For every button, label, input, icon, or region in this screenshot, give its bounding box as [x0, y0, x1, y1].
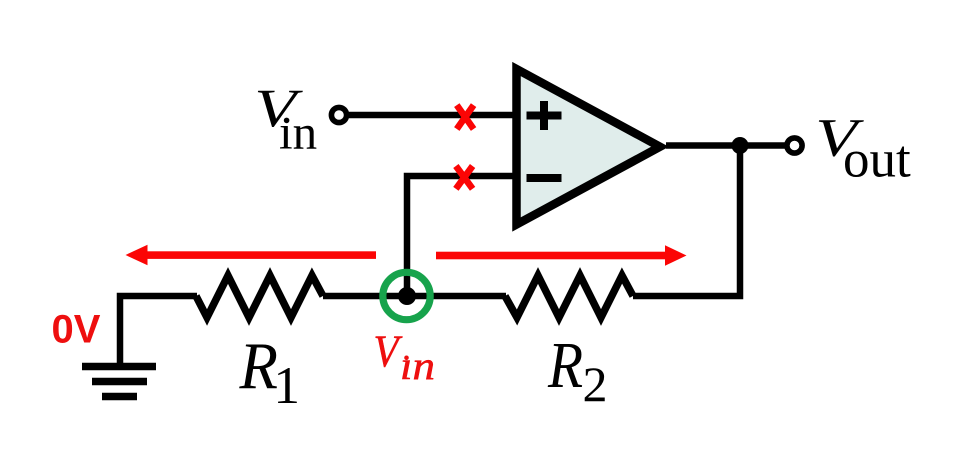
- red current arrow pointing left over R1: [126, 245, 377, 266]
- junction dot at output node: [732, 137, 749, 154]
- green circle highlighting node Vin: [383, 272, 430, 319]
- svg-text:2: 2: [583, 356, 608, 412]
- label Vin at node (red): [374, 327, 436, 389]
- wire: Vin terminal to + input: [349, 112, 514, 119]
- op-amp U1 minus input marker: [527, 174, 562, 182]
- svg-text:1: 1: [273, 356, 300, 415]
- node Vin junction dot: [398, 287, 416, 305]
- label R2: [547, 329, 607, 412]
- red current arrow pointing right over R2: [436, 245, 687, 266]
- svg-text:V: V: [374, 327, 403, 377]
- red X break mark on - input wire: [456, 166, 473, 189]
- wire: node Vin to R2 left lead: [323, 293, 506, 300]
- label R1: [239, 329, 300, 415]
- svg-text:R: R: [239, 329, 278, 403]
- svg-text:ın: ın: [400, 343, 435, 388]
- label Vin (input, black): [254, 78, 317, 160]
- output terminal (open circle): [787, 138, 802, 153]
- svg-text:R: R: [547, 329, 583, 402]
- wire: R1 left lead to ground: [120, 296, 197, 366]
- wire: feedback from output junction down to R2: [633, 146, 740, 297]
- resistor R1: [196, 276, 323, 318]
- wire: op-amp output to Vout terminal: [666, 142, 786, 149]
- op-amp U1 body: [517, 69, 661, 225]
- svg-text:ın: ın: [279, 105, 317, 160]
- red X break mark on + input wire: [457, 105, 474, 129]
- resistor R2: [505, 276, 633, 318]
- svg-text:out: out: [843, 131, 911, 189]
- ground: [82, 367, 156, 397]
- svg-text:0V: 0V: [52, 308, 101, 352]
- input terminal (open circle): [331, 107, 346, 122]
- wire: inverting input down to node Vin: [407, 176, 514, 296]
- label Vout (output, black): [815, 108, 911, 189]
- op-amp U1 plus input marker: [527, 101, 562, 130]
